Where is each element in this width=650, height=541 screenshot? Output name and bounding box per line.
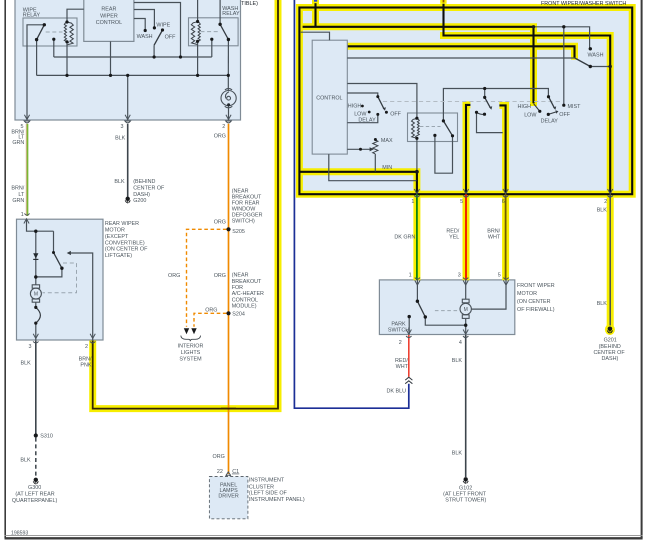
svg-text:WASH: WASH [588, 52, 604, 58]
node: rear switch top [52, 251, 55, 254]
rear wiper control box [84, 0, 134, 41]
svg-text:ORG: ORG [205, 307, 217, 313]
svg-text:LOW: LOW [354, 112, 367, 118]
ground G102 [463, 477, 468, 484]
node: front park arm end [424, 315, 427, 318]
svg-text:OF FIREWALL): OF FIREWALL) [517, 307, 555, 313]
splice S310 [34, 433, 38, 437]
node: wipe relay mid contact [52, 38, 55, 41]
wire: line A [54, 56, 212, 58]
node: relay mid pin [433, 134, 436, 137]
svg-text:WHT: WHT [488, 235, 501, 241]
svg-text:FOR: FOR [232, 285, 243, 291]
svg-text:DK GRN: DK GRN [394, 234, 415, 240]
pot wiper arrowhead [370, 147, 374, 151]
svg-text:WHT: WHT [396, 364, 409, 370]
svg-text:GRN: GRN [12, 198, 24, 204]
front wiper/washer switch box fill [299, 8, 632, 195]
svg-text:CENTER OF: CENTER OF [133, 185, 165, 191]
relay switch arm [443, 121, 452, 136]
node: WIPE contact rear [153, 26, 156, 29]
wire: lamp bottom to terminal 2 [228, 106, 230, 120]
wire: motor to terminal 4 [465, 319, 467, 335]
svg-text:DK BLU: DK BLU [387, 389, 407, 395]
panel lamps driver box (dashed) [209, 477, 248, 519]
terminal 3 rear motor [33, 334, 38, 343]
core: RED/YEL top tick + box segment [466, 105, 470, 194]
wash switch arm [575, 58, 591, 67]
svg-text:LIFTGATE): LIFTGATE) [105, 253, 132, 259]
terminal 2 front motor bottom [406, 330, 411, 338]
wash relay box [189, 18, 239, 46]
node: line B control junction [109, 74, 112, 77]
node: MIST branch junction [562, 25, 565, 28]
coil: wipe relay [64, 22, 73, 45]
svg-text:1: 1 [21, 212, 24, 218]
svg-text:ORG: ORG [214, 273, 226, 279]
node: line B lamp junction [227, 74, 230, 77]
wire: control to relay coil [347, 84, 417, 118]
terminal 5 front box [463, 189, 468, 197]
svg-text:BREAKOUT: BREAKOUT [232, 279, 262, 285]
relay coil [412, 118, 420, 138]
interior lights arrows [184, 328, 189, 334]
svg-text:MODULE): MODULE) [232, 304, 257, 310]
wire: park contact to terminal 2 [408, 317, 410, 335]
node: mid switch contact a [475, 111, 478, 114]
svg-text:M: M [34, 292, 38, 298]
node: coil1 bottom [65, 40, 68, 43]
pot resistor zigzag [373, 140, 378, 154]
wire: RED/YEL drop [465, 194, 467, 280]
node: relay switch top contact [442, 119, 445, 122]
node: DELAY contact right [547, 113, 550, 116]
hl: G201 ground blob [605, 324, 615, 335]
svg-text:G200: G200 [133, 198, 146, 204]
wire: control top feed [301, 32, 330, 40]
svg-text:RELAY: RELAY [23, 13, 41, 19]
control box [312, 40, 347, 154]
wire: ORG dashed to interior lights (S204) [194, 313, 227, 327]
wire: coil1 bottom to line B [66, 42, 68, 75]
svg-text:MIN: MIN [382, 165, 392, 171]
node: coil2 top [196, 20, 199, 23]
node: rear switch arm end [60, 267, 63, 270]
svg-text:WIPE: WIPE [156, 23, 170, 29]
terminal 2 rear box [226, 115, 231, 120]
terminal 2 rear motor [90, 334, 95, 343]
node: rear motor rail [34, 275, 37, 278]
hl: BRN/WHT drop [499, 105, 505, 280]
intermittent relay box [408, 113, 458, 142]
svg-text:RED/: RED/ [395, 358, 408, 364]
wire: pot bottom to MIN [374, 154, 376, 171]
wire: park arm out to motor ground rail [425, 317, 465, 325]
svg-text:BLK: BLK [452, 450, 463, 456]
node: coil1 top [65, 20, 68, 23]
terminal 3 front motor [463, 278, 468, 286]
node: right switch pivot [547, 95, 550, 98]
svg-text:MOTOR: MOTOR [105, 228, 125, 234]
ground G300 [33, 478, 38, 485]
mech link dashes wipe relay [46, 31, 63, 33]
core: W1 [303, 27, 534, 103]
svg-text:ORG: ORG [214, 133, 226, 139]
svg-text:6: 6 [502, 199, 505, 205]
svg-text:2: 2 [222, 124, 225, 130]
svg-text:(ON CENTER OF: (ON CENTER OF [105, 247, 148, 253]
node: OFF contact rear [161, 28, 164, 31]
arrowhead park feed [67, 251, 71, 255]
node: MAX pot top [374, 138, 377, 141]
svg-text:(AT LEFT REAR: (AT LEFT REAR [15, 492, 54, 498]
node: MIST contact [562, 104, 565, 107]
core: WB [444, 0, 611, 194]
wire: mid switch LOW contact loop [477, 113, 503, 133]
wire: BLK to G200 [127, 124, 129, 197]
wire: terminal5 to motor right [472, 280, 506, 309]
svg-text:RED/: RED/ [446, 228, 459, 234]
node: MIN junction on yellow [415, 170, 419, 174]
svg-text:WIPER: WIPER [100, 13, 118, 19]
brace [181, 336, 201, 342]
front wiper motor box [379, 280, 514, 335]
svg-text:CONTROL: CONTROL [316, 95, 342, 101]
svg-text:(NEAR: (NEAR [232, 273, 249, 279]
wire: DK BLU loop [294, 0, 408, 408]
switch arm rear motor [54, 253, 62, 269]
svg-text:BRN/: BRN/ [487, 228, 500, 234]
node: speed rail mid junction [483, 87, 486, 90]
wire: terminal 3 drop [127, 75, 129, 120]
wire: DK GRN drop [416, 194, 418, 280]
svg-text:ORG: ORG [168, 273, 180, 279]
node: front park pivot [416, 300, 419, 303]
svg-text:YEL: YEL [449, 235, 459, 241]
svg-text:CLUSTER: CLUSTER [249, 484, 274, 490]
wire: RED/WHT [408, 335, 410, 377]
wire: terminal1 entry [27, 219, 54, 231]
svg-text:RELAY: RELAY [222, 11, 240, 17]
wire: wash relay mid contact riser [211, 39, 213, 57]
wire: ORG dashed to interior lights (S205) [187, 229, 227, 326]
svg-text:SWITCH: SWITCH [388, 327, 409, 333]
node: HIGH contact left [361, 105, 364, 108]
mech dashes front motor [435, 310, 458, 312]
terminal 2 front box [608, 189, 613, 197]
svg-text:INSTRUMENT PANEL): INSTRUMENT PANEL) [249, 497, 305, 503]
terminal 5 front motor [503, 278, 508, 286]
wire: diode branch [35, 231, 37, 277]
svg-text:22: 22 [217, 469, 223, 475]
node: relay arm end [451, 134, 454, 137]
ground G200 [125, 197, 130, 204]
hl: wire W1 to HIGH [303, 27, 534, 106]
park switch arm front [417, 301, 425, 317]
ground G201 (highlighted) [607, 327, 612, 334]
svg-text:(LEFT SIDE OF: (LEFT SIDE OF [249, 491, 288, 497]
svg-text:1: 1 [411, 199, 414, 205]
svg-text:OFF: OFF [559, 112, 570, 118]
node: line B coil2 junction [196, 74, 199, 77]
svg-text:MAX: MAX [381, 138, 393, 144]
coil: wash relay [191, 22, 200, 45]
core: MIN line [300, 172, 417, 194]
node: rear motor entry [34, 230, 37, 233]
node: wipe relay pivot [43, 23, 46, 26]
node: WB wash junction [609, 65, 612, 68]
right switch DELAY-OFF link [548, 112, 556, 114]
svg-text:BLK: BLK [114, 179, 125, 185]
left speed switch arm [378, 97, 384, 109]
wire: wipe relay switch lower to line B [36, 40, 38, 76]
wire: wipe relay pivot to terminal 5 drop [27, 25, 44, 120]
svg-text:HIGH: HIGH [518, 104, 532, 110]
hl: stub A feed [312, 0, 319, 27]
svg-text:REAR WIPER: REAR WIPER [105, 221, 139, 227]
svg-text:SWITCH): SWITCH) [232, 219, 255, 225]
svg-text:1: 1 [409, 273, 412, 279]
wire: BLK dashed S310 to G300 [35, 438, 37, 477]
svg-text:DRIVER: DRIVER [218, 494, 238, 500]
wire: wash arm out to WB [590, 66, 610, 68]
node: WASH contact front [589, 47, 592, 50]
wire: wipe relay mid contact to line A [53, 39, 55, 57]
core: front box border [299, 8, 632, 195]
node: W1 corner junction [532, 25, 535, 28]
svg-text:DASH): DASH) [602, 356, 619, 362]
core: stub A [314, 0, 316, 27]
svg-text:HIGH: HIGH [348, 103, 362, 109]
svg-text:OFF: OFF [390, 112, 401, 118]
switch arm: wipe relay [37, 25, 45, 40]
right switch arm [549, 97, 555, 108]
wire: ORG solid to panel lamps driver [228, 124, 230, 474]
svg-text:MIST: MIST [568, 104, 582, 110]
svg-text:ORG: ORG [213, 454, 225, 460]
wire: rear path core over ORG crossing [221, 408, 236, 410]
terminal 3 rear box [125, 115, 130, 120]
node: wash relay mid contact [210, 38, 213, 41]
mech link dashes rear motor [43, 263, 77, 293]
wire: coil1 top feed from control box [67, 9, 84, 22]
wire: BRN/WHT drop [505, 194, 507, 280]
wire: terminal1 to park pivot [416, 280, 418, 301]
rear wiper switch assembly box (top-left) [15, 0, 241, 120]
terminal 5 rear box [24, 115, 29, 120]
splice S204 [226, 311, 230, 315]
node: mid switch pivot [483, 96, 486, 99]
svg-text:3: 3 [121, 124, 124, 130]
svg-text:PARK: PARK [391, 321, 406, 327]
svg-text:G201: G201 [604, 338, 617, 344]
node: left switch pivot [376, 95, 379, 98]
svg-text:WASH: WASH [137, 34, 153, 40]
rear wiper motor box [17, 219, 104, 340]
wire: relay switch to speed switch rail [443, 89, 548, 121]
svg-text:S205: S205 [232, 229, 245, 235]
svg-text:BRN/: BRN/ [79, 356, 92, 362]
node: front motor ground junction [464, 324, 467, 327]
svg-text:OFF: OFF [165, 34, 176, 40]
svg-text:GRN: GRN [12, 140, 24, 146]
wire: wash relay coil top feed [197, 0, 199, 22]
hl: wire WC control to wash pivot [347, 46, 574, 60]
node: WASH contact rear [144, 29, 147, 32]
node: wash relay lower contact [227, 38, 230, 41]
svg-text:LIGHTS: LIGHTS [181, 350, 201, 356]
mid switch arm [485, 97, 491, 107]
wire: BRN/LT GRN terminal5 to rear motor [25, 124, 27, 216]
wire: control to WASH contact [134, 19, 145, 31]
svg-text:FRONT WIPER: FRONT WIPER [517, 283, 555, 289]
wire: control to WIPE contact [134, 10, 155, 28]
svg-text:CONTROL: CONTROL [232, 297, 258, 303]
wire: relay coil bottom to MIN junction [416, 138, 418, 171]
wire: pot wiper [347, 148, 370, 150]
svg-text:BLK: BLK [597, 208, 608, 214]
node: park arc top [34, 306, 37, 309]
node: wipe relay lower contact [35, 38, 38, 41]
hl: RED/YEL drop [466, 105, 470, 280]
wipe relay box [23, 18, 77, 46]
wire: control to wash pivot [347, 57, 575, 59]
svg-text:INTERIOR: INTERIOR [178, 344, 204, 350]
wire: switch feed [53, 231, 55, 252]
svg-text:G300: G300 [28, 485, 41, 491]
wire: switch out to bottom rail [36, 268, 62, 285]
wire: rear switch pivot drop [153, 45, 155, 57]
svg-text:(ON CENTER: (ON CENTER [517, 299, 551, 305]
svg-text:A/C-HEATER: A/C-HEATER [232, 291, 264, 297]
node: OFF contact left [385, 111, 388, 114]
svg-text:FRONT WIPER/WASHER SWITCH: FRONT WIPER/WASHER SWITCH [541, 1, 626, 7]
svg-text:CONTROL: CONTROL [96, 20, 122, 26]
svg-text:QUARTERPANEL): QUARTERPANEL) [12, 498, 58, 504]
node: line A feed junction [179, 55, 182, 58]
svg-text:BRN/: BRN/ [11, 186, 24, 192]
svg-text:5: 5 [498, 273, 501, 279]
node: relay coil bottom pin [415, 137, 418, 140]
svg-text:MOTOR: MOTOR [517, 291, 537, 297]
svg-text:DELAY: DELAY [358, 118, 376, 124]
wire: control to DELAY contact [347, 115, 378, 123]
node: line A pivot junction [153, 55, 156, 58]
node: DELAY contact left [376, 113, 379, 116]
svg-text:2: 2 [604, 199, 607, 205]
svg-text:LT: LT [18, 192, 25, 198]
svg-text:2: 2 [85, 344, 88, 350]
svg-text:5: 5 [460, 199, 463, 205]
terminal 1 front box [414, 189, 419, 197]
core: WC [347, 46, 574, 58]
core: BRN/WHT top tick + box segment [499, 105, 505, 194]
hl: MIN line + DK GRN drop [300, 172, 417, 280]
svg-text:M: M [464, 307, 468, 313]
lamp (rear wiper indicator) [221, 88, 236, 107]
splice S205 [226, 227, 230, 231]
core: rear path BRN/PNK [93, 0, 278, 409]
terminal 4 front motor bottom [463, 330, 468, 338]
diode [33, 253, 38, 258]
tiny top stub marks [313, 0, 319, 3]
wire: BLK to G102 [465, 335, 467, 477]
svg-text:SYSTEM: SYSTEM [179, 357, 202, 363]
svg-text:BLK: BLK [115, 135, 126, 141]
terminal 1 rear motor [24, 214, 30, 224]
wire: control bottom to MIN drop [329, 154, 417, 181]
node: wash arm lower contact [589, 65, 592, 68]
right switch HIGH-LOW link [534, 104, 540, 112]
wire: control box bottom drop [110, 41, 112, 75]
svg-text:BLK: BLK [452, 358, 463, 364]
svg-text:BLK: BLK [20, 457, 31, 463]
node: line B coil1 junction [65, 74, 68, 77]
mid switch contact link [477, 112, 485, 114]
svg-text:(AT LEFT FRONT: (AT LEFT FRONT [443, 491, 487, 497]
svg-text:S204: S204 [232, 312, 245, 318]
motor symbol front [460, 299, 471, 318]
main mech link dashes [383, 101, 562, 103]
hl: rear motor BRN/PNK feed path [93, 0, 278, 409]
terminal 6 front box [503, 189, 508, 197]
svg-text:(BEHIND: (BEHIND [599, 344, 621, 350]
wire: BLK drop to G201 [609, 194, 611, 325]
wire: G1 continuation to WASH contact [534, 27, 590, 48]
motor symbol rear [30, 285, 41, 302]
wire: line B [37, 74, 229, 76]
node: LOW contact left [368, 111, 371, 114]
node: LOW contact right [538, 110, 541, 113]
svg-text:PNK: PNK [80, 363, 91, 369]
wire: wash switch lower through line B to lamp [227, 40, 229, 91]
park switch arc [36, 307, 41, 323]
node: front park contact [408, 315, 411, 318]
wire: MIST branch [563, 27, 565, 105]
wire: motor bottom to park switch [35, 302, 37, 340]
node: coil2 bottom [196, 40, 199, 43]
svg-text:3: 3 [458, 273, 461, 279]
wire: wash relay switch top feed [219, 0, 221, 24]
wire: control top feed to line A [134, 3, 181, 58]
svg-text:INSTRUMENT: INSTRUMENT [249, 478, 285, 484]
svg-text:DASH): DASH) [133, 192, 150, 198]
svg-text:STRUT TOWER): STRUT TOWER) [445, 497, 486, 503]
svg-text:4: 4 [459, 340, 462, 346]
wire: coil2 bottom to line B [197, 41, 199, 75]
svg-text:2: 2 [399, 340, 402, 346]
inline connector chevrons [405, 377, 412, 384]
svg-text:3: 3 [29, 344, 32, 350]
node: wash relay top contact [218, 23, 221, 26]
svg-text:(BEHIND: (BEHIND [133, 179, 155, 185]
svg-text:TIBLE): TIBLE) [241, 1, 258, 7]
svg-text:198593: 198593 [11, 530, 28, 536]
svg-text:BLK: BLK [20, 360, 31, 366]
svg-text:REAR: REAR [101, 7, 116, 13]
svg-text:ORG: ORG [214, 219, 226, 225]
wire: relay mid pin U-loop [435, 136, 453, 174]
relay mech dashes [420, 126, 441, 128]
hl: front box border ring [299, 8, 632, 195]
node: relay coil top pin [415, 117, 418, 120]
switch arm: rear wiper switch [154, 30, 162, 45]
svg-text:CONVERTIBLE): CONVERTIBLE) [105, 240, 145, 246]
switch arm: wash relay [220, 24, 228, 39]
svg-text:S310: S310 [40, 434, 53, 440]
terminal 1 front motor [415, 278, 420, 286]
svg-text:BLK: BLK [597, 301, 608, 307]
